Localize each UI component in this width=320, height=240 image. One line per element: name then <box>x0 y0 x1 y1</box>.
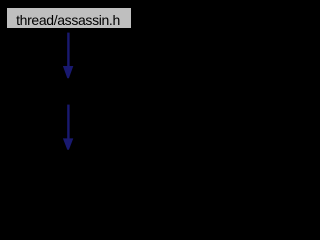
node N0: thread/assassin.h (current file, grey fill, black border) <box>6 7 132 29</box>
wire: edge E1 shaft <box>67 33 69 67</box>
edge E2: hidden node N1 -> hidden node N2 (include arrow, midnightblue) <box>63 105 73 150</box>
edge E1: N0 -> hidden node N1 (include arrow, midnightblue) <box>63 33 73 79</box>
edge E2 arrowhead <box>63 138 73 149</box>
edge E1 arrowhead <box>63 66 73 78</box>
wire: edge E2 shaft <box>67 105 69 139</box>
